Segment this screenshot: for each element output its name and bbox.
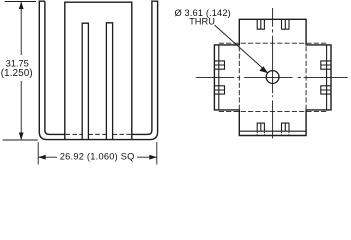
leader arrowhead	[259, 66, 268, 73]
front view base inner edge hidden segments	[66, 133, 131, 135]
svg-text:26.92 (1.060) SQ: 26.92 (1.060) SQ	[60, 152, 135, 162]
front view silhouette (outer fins + base)	[39, 1, 157, 139]
top view hidden cavity verticals	[239, 46, 306, 109]
top view right arm inner line	[326, 45, 328, 110]
dimension line 26.92 right segment	[137, 156, 157, 158]
arrowhead down (31.75)	[19, 133, 24, 141]
arrowhead up (31.75)	[19, 2, 24, 10]
extension line right (26.92)	[156, 142, 158, 165]
top view top fin tab 1	[257, 19, 264, 29]
dimension line 26.92 left segment	[38, 156, 57, 158]
extension line bottom (31.75)	[3, 139, 38, 141]
leader line	[215, 25, 264, 69]
top view bottom arm inner line	[239, 130, 306, 132]
dimension line 31.75 upper segment	[20, 2, 22, 55]
arrowhead right (26.92)	[149, 155, 157, 160]
top view right fin tab 2	[321, 86, 331, 94]
front view central U channel	[65, 2, 132, 139]
extension line left (26.92)	[37, 142, 39, 165]
top view bottom tab hidden marks	[257, 132, 289, 135]
top view bottom fin tab 2	[282, 123, 290, 131]
hole circle	[266, 71, 279, 84]
top view horizontal centerline	[196, 76, 348, 78]
front view inner fin 2	[106, 23, 112, 140]
top view left arm inner line	[218, 45, 220, 110]
top view hidden cavity horizontals	[219, 43, 327, 111]
top view left fin tab 1	[214, 61, 224, 69]
top view outline (plus shape)	[214, 19, 331, 135]
svg-text:THRU: THRU	[189, 17, 215, 27]
top view bottom fin tab 1	[257, 123, 264, 131]
arrowhead left (26.92)	[38, 155, 46, 160]
top view top fin tab 2	[282, 19, 290, 29]
dimension line 31.75 lower segment	[20, 81, 22, 139]
top view left fin tab 2	[214, 86, 224, 94]
svg-text:(1.250): (1.250)	[1, 68, 33, 79]
top view right fin tab 1	[321, 61, 331, 69]
extension line top (31.75)	[5, 1, 36, 3]
svg-text:31.75: 31.75	[6, 58, 29, 68]
front view inner fin 1	[82, 23, 88, 139]
top view vertical centerline	[272, 8, 274, 139]
